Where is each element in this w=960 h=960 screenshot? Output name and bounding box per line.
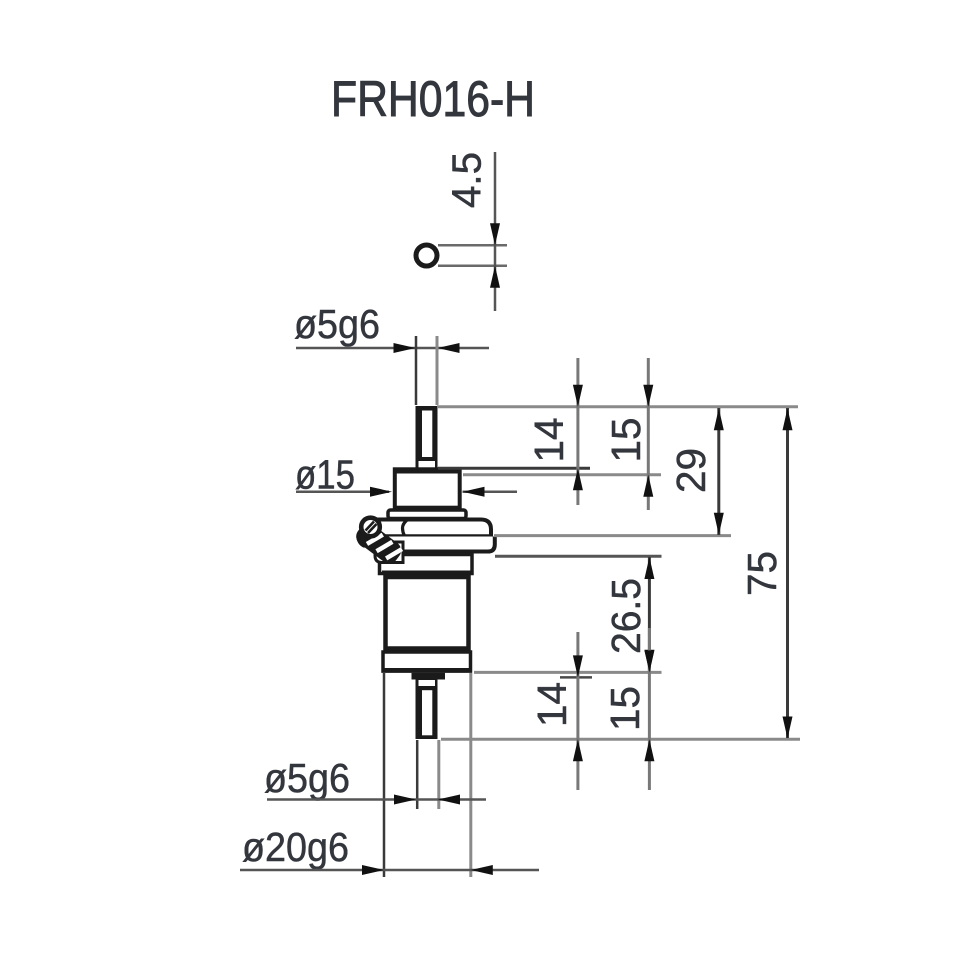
extension line right top	[437, 405, 798, 408]
screw head	[361, 518, 380, 537]
nut tier2 bottom bar	[380, 550, 490, 554]
pin detail ring	[416, 245, 437, 266]
dim bottom shaft dia line	[267, 798, 486, 801]
dim 14 bottom arrow down	[573, 655, 583, 677]
screw shank	[353, 520, 405, 567]
dim body arrow left	[471, 865, 493, 875]
dim 4.5 line	[494, 152, 497, 311]
bottom shaft body	[416, 680, 438, 740]
dim bushing right line	[463, 490, 518, 493]
dim 15 bottom line	[648, 628, 651, 790]
dim 14 top arrow down	[573, 385, 583, 407]
bottom shaft cap bar	[412, 673, 446, 680]
pin detail top line	[438, 244, 507, 247]
dim 75 arrow down	[783, 717, 793, 739]
svg-text:FRH016-H: FRH016-H	[331, 71, 535, 127]
screw lug	[375, 542, 403, 563]
dim top shaft arrow right	[394, 343, 416, 353]
dim 14 top line	[576, 358, 579, 505]
dim 14 bottom arrow up	[573, 739, 583, 761]
washer bottom bar	[382, 571, 472, 576]
top shaft flat strip	[422, 411, 432, 458]
extension line shaft right	[436, 336, 439, 405]
svg-text:29: 29	[668, 448, 714, 493]
washer under nut	[380, 555, 473, 574]
dim bushing arrow left	[463, 487, 485, 497]
svg-text:26.5: 26.5	[603, 578, 649, 654]
dim 75 line	[786, 408, 789, 738]
dim 15 top arrow down	[643, 385, 653, 407]
dim 4.5 arrow up	[490, 266, 500, 288]
dim 26.5 arrow up	[644, 557, 654, 579]
dim 15 top arrow up	[643, 475, 653, 497]
dim 4.5 arrow down	[490, 223, 500, 245]
bushing	[395, 469, 460, 507]
dim 15 top line	[647, 358, 650, 510]
extension line 14 bottom top	[560, 676, 592, 679]
extension line body left	[383, 673, 386, 877]
dim bottom shaft arrow left	[438, 795, 460, 805]
extension line 29 bottom	[494, 534, 731, 537]
extension line bottom shaft right	[437, 740, 440, 809]
dim 14 top arrow up	[573, 468, 583, 490]
extension line body right	[469, 673, 472, 877]
dim 15 bottom arrow up	[644, 739, 654, 761]
dim 15 bottom arrow down	[644, 650, 654, 672]
top shaft body	[416, 406, 438, 469]
nut tier2	[380, 537, 495, 552]
extension line 14 top bottom	[438, 467, 590, 470]
collar washer	[388, 510, 466, 519]
svg-text:15: 15	[603, 418, 649, 463]
screw head hatch marks	[366, 522, 375, 531]
body cylinder	[386, 577, 469, 649]
dim 14 bottom line	[576, 632, 579, 790]
extension line 15 bottom top	[474, 671, 662, 674]
extension line 26.5 top	[495, 555, 662, 558]
screw head second ring	[359, 534, 365, 546]
extension line bottom tip	[441, 738, 800, 741]
svg-text:14: 14	[529, 682, 575, 727]
dim bushing dia left line	[296, 490, 389, 493]
extension line shaft left	[415, 336, 418, 405]
svg-text:ø5g6: ø5g6	[294, 301, 380, 347]
dim body dia line	[240, 869, 539, 872]
dim bushing arrow right	[370, 487, 392, 497]
dim 29 arrow down	[714, 513, 724, 535]
pin detail bottom line	[438, 265, 507, 268]
svg-text:15: 15	[602, 686, 648, 731]
top shaft plain strip	[419, 461, 436, 468]
dim top shaft arrow left	[438, 343, 460, 353]
extension line bottom shaft left	[416, 740, 419, 809]
dim 29 line	[717, 408, 720, 535]
dim top shaft dia line	[296, 347, 489, 350]
bottom shaft flat strip	[422, 690, 432, 735]
bottom shaft plain strip	[419, 680, 436, 686]
svg-text:4.5: 4.5	[444, 152, 490, 208]
lower band	[383, 652, 471, 671]
nut tier1	[378, 520, 491, 537]
dim 26.5 line	[648, 557, 651, 672]
dim 75 arrow up	[783, 408, 793, 430]
svg-text:14: 14	[526, 418, 572, 463]
dim 26.5 arrow down	[644, 650, 654, 672]
svg-text:75: 75	[739, 551, 785, 596]
nut mid line	[377, 534, 493, 538]
svg-text:ø5g6: ø5g6	[264, 755, 350, 801]
extension line 15 top bottom	[463, 473, 661, 476]
svg-text:ø20g6: ø20g6	[242, 824, 349, 870]
dim 29 arrow up	[714, 408, 724, 430]
dim body arrow right	[362, 865, 384, 875]
nut left end cap line	[403, 520, 408, 536]
dim bottom shaft arrow right	[394, 795, 416, 805]
lower band bottom bar	[382, 668, 473, 673]
bushing top bar	[393, 468, 462, 474]
